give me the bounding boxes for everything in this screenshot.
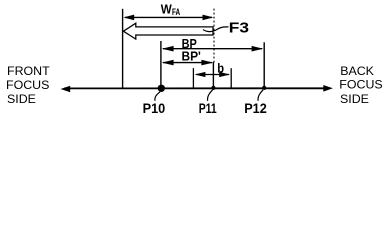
vertical line at P11 bbox=[212, 62, 214, 88]
leader P10 bbox=[155, 92, 160, 101]
svg-text:FA: FA bbox=[172, 7, 181, 17]
hollow block arrow F3 bbox=[123, 23, 213, 39]
svg-text:SIDE: SIDE bbox=[7, 92, 36, 106]
label FRONT FOCUS SIDE bbox=[6, 64, 50, 106]
svg-text:SIDE: SIDE bbox=[340, 92, 369, 106]
svg-text:BACK: BACK bbox=[340, 64, 374, 78]
vertical line at P12 bbox=[263, 42, 265, 88]
dimension arrow BP' bbox=[162, 60, 213, 66]
vertical reference line at front lens vertex bbox=[122, 9, 124, 89]
leader P12 bbox=[258, 90, 263, 101]
node P12 dot bbox=[262, 86, 266, 90]
dimension arrow WFA bbox=[123, 15, 213, 21]
dimension arrow b bbox=[195, 72, 230, 77]
leader to F3 bbox=[203, 27, 229, 32]
svg-text:P10: P10 bbox=[143, 101, 166, 117]
svg-text:P11: P11 bbox=[199, 101, 217, 117]
svg-text:W: W bbox=[161, 3, 172, 17]
svg-text:BP': BP' bbox=[182, 48, 201, 63]
label WFA bbox=[161, 3, 181, 18]
dimension arrow BP bbox=[162, 46, 264, 52]
svg-text:FOCUS: FOCUS bbox=[339, 77, 382, 91]
vertical line at P10 bbox=[160, 41, 162, 88]
svg-text:b: b bbox=[217, 61, 224, 76]
optical axis with arrowheads bbox=[61, 85, 333, 92]
svg-text:FRONT: FRONT bbox=[7, 64, 50, 78]
svg-text:FOCUS: FOCUS bbox=[6, 78, 49, 92]
svg-text:F3: F3 bbox=[229, 20, 249, 36]
svg-text:P12: P12 bbox=[244, 101, 267, 117]
label BACK FOCUS SIDE bbox=[339, 64, 382, 106]
node P11 dot bbox=[211, 86, 215, 90]
leader P11 bbox=[208, 90, 213, 101]
dotted vertical line through P11 bbox=[213, 9, 215, 63]
b left extension tick bbox=[192, 68, 194, 88]
node P10 dot bbox=[158, 85, 165, 92]
b right extension tick bbox=[230, 68, 232, 88]
